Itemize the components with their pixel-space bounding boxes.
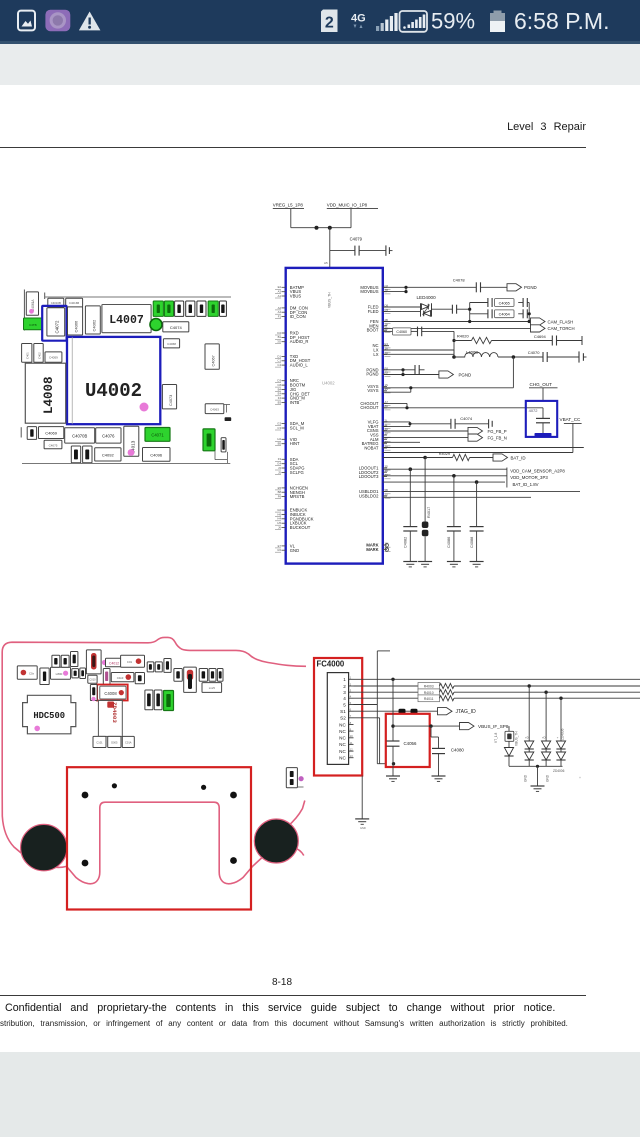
svg-text:VT_1.8: VT_1.8 [494,732,498,743]
svg-text:4A: 4A [385,427,389,431]
svg-text:CHG_OUT: CHG_OUT [530,382,553,387]
capacitor C4016B second (small box) [66,298,83,307]
svg-text:NC: NC [339,736,346,741]
capacitor row right of L4007 [153,301,226,316]
IC U4002 left pin labels [275,285,314,553]
svg-text:S2: S2 [340,716,346,721]
wire long vertical bus at FC4000 [377,651,395,766]
svg-text:F3: F3 [278,457,282,461]
wire MOVBUS net with capacitor C4078 and PGND arrow [383,278,507,294]
svg-text:INTB: INTB [290,400,300,405]
svg-text:H2: H2 [277,437,281,441]
svg-text:NC: NC [339,749,346,754]
highlighted green component left of C4072 [24,318,43,330]
bottom component row of U4002 PCB area [21,427,121,463]
power symbol PGND (second) [439,371,471,378]
capacitor C4074 (PCB) [163,322,189,332]
svg-text:SCLFG: SCLFG [290,470,304,475]
capacitor C4086 with ground [447,476,461,562]
PCB layout board edge line (top-left) [24,290,231,331]
transient diode column VBUS with box [494,726,519,766]
net arrow VBUS_IF_SP8 [460,723,509,730]
svg-text:J3: J3 [278,466,281,470]
capacitor C4008 highlighted red box [97,685,128,701]
test point green circle (PCB) [150,319,162,331]
IC U4002 (PCB footprint) [67,337,160,424]
IC U4002 right pin labels [359,284,391,552]
svg-text:C101: C101 [96,741,103,745]
gallery notification icon [18,11,35,31]
diode ZD4003 (PCB) [98,701,122,737]
svg-text:BAT_ID: BAT_ID [511,455,526,460]
component cluster bottom PCB [17,650,223,711]
svg-text:AUDIO_R: AUDIO_R [290,339,309,344]
svg-text:LED4000: LED4000 [417,295,437,300]
PCB board outline (pink) right circle arcs [253,853,268,866]
inductor L4008 (PCB) [25,363,65,423]
svg-text:L4008: L4008 [42,376,56,414]
svg-text:C0x: C0x [29,672,35,676]
connector shield inner outline (pink staple) [67,802,253,884]
net arrow JTAG_ID [438,708,477,716]
capacitor C4082 with ground (under IC) [403,469,417,561]
ground (ESD bus) [531,766,545,791]
svg-text:13: 13 [350,754,354,758]
svg-text:F4: F4 [278,396,282,400]
svg-text:U4002: U4002 [85,380,142,402]
svg-text:+: + [557,736,559,740]
svg-text:5: 5 [343,702,346,707]
svg-text:B4: B4 [278,387,282,391]
wire LDOOUT2 VDD_MOTOR_3P3 [383,474,549,480]
notification shade strip [0,44,640,85]
svg-text:3D: 3D [385,464,389,468]
confidential notice line 2 [0,1019,580,1028]
footer rule [0,995,586,996]
svg-text:L4007: L4007 [109,314,144,327]
svg-text:C4062: C4062 [91,319,96,332]
svg-text:CAM_FLASH: CAM_FLASH [548,319,574,324]
svg-text:LX: LX [373,352,378,357]
svg-text:C4060: C4060 [396,330,407,334]
purple app notification icon [45,10,70,32]
svg-text:GND: GND [524,774,528,782]
status bar background [0,0,640,41]
status bar [0,0,640,44]
ground (C4086) [447,562,461,567]
svg-text:MOVBUS: MOVBUS [360,289,378,294]
svg-text:C1: C1 [277,359,281,363]
net label VBAT_CC [383,417,582,452]
svg-text:ZD4003: ZD4003 [111,702,118,723]
svg-text:C4096: C4096 [150,453,163,458]
svg-text:C4063: C4063 [210,408,219,412]
wire LDOOUT1 VDD_CAM_SENSOR_A2P8 [383,467,566,473]
svg-text:GND: GND [546,774,550,782]
svg-text:U4002: U4002 [322,381,335,386]
svg-text:CHGOUT: CHGOUT [360,405,379,410]
svg-text:C4079: C4079 [350,237,363,242]
net label VREG_L5_1P8 [273,203,304,209]
svg-text:C3: C3 [277,426,281,430]
header Level 3 Repair [0,121,586,133]
svg-text:C4066: C4066 [74,320,79,333]
svg-text:C4092: C4092 [102,453,115,458]
resistor R4029 and BAT_ID arrow [383,452,526,461]
svg-text:ZD4006: ZD4006 [553,769,565,773]
net label CHG_OUT [529,382,558,401]
capacitor C4088 with ground [470,482,484,561]
svg-text:C4065: C4065 [499,301,510,305]
svg-text:PGND: PGND [366,372,378,377]
svg-text:CAM_TORCH: CAM_TORCH [548,326,575,331]
bottom gray bar [0,1052,640,1137]
svg-text:A4: A4 [278,310,282,314]
svg-text:NC: NC [339,742,346,747]
capacitor C4079 [330,228,393,256]
svg-text:C4068: C4068 [167,342,176,346]
svg-text:R4020: R4020 [457,334,470,339]
wire S1 to JTAG_ID with pads [354,709,438,714]
IC U4002 MARK pins [366,543,388,552]
PCB board outline (pink) bottom-left curve [2,793,66,867]
wire FEN to CAM_FLASH arrow [383,318,573,325]
svg-text:12: 12 [350,748,354,752]
svg-text:C4008: C4008 [104,691,117,696]
svg-text:BAT_ID_1.8V: BAT_ID_1.8V [513,482,539,487]
svg-text:G3: G3 [277,422,281,426]
svg-text:B1: B1 [278,335,282,339]
svg-text:J6: J6 [278,525,281,529]
svg-text:NC: NC [339,722,346,727]
resistor R4020 and capacitor C4694 [452,334,582,346]
capacitor C4016B (small box) [48,298,64,307]
wire PGND pins with capacitor and PGND arrow [383,365,439,376]
capacitor C4074 (schematic) [383,416,492,429]
svg-text:C4088: C4088 [470,537,474,548]
wire S2 down along box [354,718,380,764]
capacitor C4067 (PCB) [205,344,219,369]
wire ALM stub [383,441,420,443]
power symbol PGND (MOVBUS) [507,284,537,291]
blue highlight box capacitor C4072 (schematic) [526,401,557,437]
svg-text:C4071: C4071 [151,433,164,438]
blue highlight box around C4072 [42,306,66,341]
svg-text:4: 4 [343,696,346,701]
boxed signal icon [400,11,428,32]
svg-text:NOBAT: NOBAT [364,446,379,451]
wire BATREG long [383,447,584,449]
svg-text:E2: E2 [278,285,282,289]
svg-text:C4080: C4080 [451,748,464,753]
svg-text:C8: C8 [277,383,281,387]
LED LED4000 (dual diode) [383,295,470,317]
capacitor C4065 [470,298,530,307]
svg-text:R4017: R4017 [427,507,431,518]
svg-text:C402: C402 [38,352,42,359]
svg-text:A1: A1 [278,294,282,298]
capacitor C4071 highlighted green (PCB) [145,428,170,442]
svg-text:F1: F1 [278,315,282,319]
IC HDC500 (PCB octagon) [23,695,76,734]
svg-text:G6: G6 [277,508,281,512]
wire VSYS to inductor output node [383,357,514,392]
inductor L4013 (PCB) [124,426,139,456]
svg-text:NC: NC [339,729,346,734]
svg-text:VDD_MUIC_IO_1P8: VDD_MUIC_IO_1P8 [327,203,368,208]
component left of C4008 [90,685,97,702]
ground (C4082) [403,562,417,567]
svg-text:PGND: PGND [524,285,537,290]
wire vertical joining FLED and flash caps [468,303,531,322]
svg-text:VDD_CAM_SENSOR_A2P8: VDD_CAM_SENSOR_A2P8 [510,469,565,474]
capacitor C4072 (PCB) [47,308,65,336]
svg-text:C4082: C4082 [404,537,408,548]
svg-text:8D: 8D [385,473,389,477]
connector pads under ZD4003 [93,736,134,747]
svg-text:FG_FB_N: FG_FB_N [488,436,507,441]
svg-text:MRSTB: MRSTB [290,494,305,499]
svg-text:C4016B: C4016B [69,301,79,305]
wire FC4000 pin1 row [354,678,640,681]
svg-text:BUCKOUT: BUCKOUT [290,525,311,530]
4G indicator [351,13,366,29]
svg-text:C4073: C4073 [169,395,173,406]
svg-text:A5: A5 [324,261,328,265]
svg-text:xxx5: xxx5 [209,686,216,690]
resistor R4003 on pin2 row [354,683,640,690]
svg-text:C4086: C4086 [447,537,451,548]
svg-text:C4069: C4069 [45,431,58,436]
resistor R4017 with ground [422,458,431,562]
svg-text:C4075: C4075 [49,444,58,448]
svg-text:3: 3 [343,690,346,695]
page number 8-18 [0,977,564,988]
svg-text:R4003: R4003 [424,685,434,689]
capacitor C4056 symbol [387,679,400,776]
board outline bottom line [22,463,230,465]
connector pad dots [82,783,237,866]
mounting hole left (black circle) [21,824,67,870]
svg-text:C01: C01 [127,660,133,664]
svg-text:AUDIO_L: AUDIO_L [290,363,309,368]
capacitor C4070 and output cap [528,350,587,363]
svg-text:S1: S1 [340,709,346,714]
svg-text:11: 11 [350,741,353,745]
svg-text:C4078: C4078 [453,278,466,283]
svg-text:FG_FB_P: FG_FB_P [488,429,507,434]
svg-text:VSYS: VSYS [367,388,378,393]
capacitor C4062 (PCB) [85,306,100,334]
svg-text:G5: G5 [277,548,281,552]
wire LDOOUT3 BAT_ID_1.8V [383,468,539,488]
wire USBLDO2 [383,496,531,498]
svg-text:R4029: R4029 [439,452,450,456]
PCB board outline (pink) top [2,637,306,793]
svg-text:C4TB: C4TB [29,323,37,327]
USB connector red outline box [67,767,251,909]
svg-text:L800: L800 [56,672,63,676]
resistor R4011 on pin4 row [354,695,640,702]
net label VDD_MUIC_IO_1P8 [327,203,378,209]
svg-text:GND: GND [290,548,299,553]
svg-text:C0x0: C0x0 [117,676,124,680]
green component right of U4002 area [203,429,215,451]
svg-text:C4016B: C4016B [51,301,61,305]
svg-text:C4070B: C4070B [72,434,87,439]
connector FC4000 symbol body [327,673,348,765]
wire to IC pin A5 [324,251,330,268]
capacitor C4056 red highlight box [386,714,430,767]
ground (R4017) [418,562,432,567]
svg-text:LDOOUT3: LDOOUT3 [359,474,379,479]
capacitor C4073 (PCB) [162,385,176,409]
svg-text:C4: C4 [277,363,281,367]
op-amp IC U4002 main symbol box [286,268,383,564]
svg-text:+: + [579,776,581,780]
capacitor C4066 (PCB) [68,307,83,335]
ground (C4088) [470,562,484,567]
svg-text:C401: C401 [26,352,30,359]
svg-text:1: 1 [343,677,346,682]
svg-text:+D: +D [525,736,529,740]
warning triangle icon [79,12,101,31]
connector FC4000 red highlight box [314,658,362,776]
svg-text:B8: B8 [278,490,282,494]
wire VBUS_IF_SP8 [393,724,460,727]
wire CHGOUT to C4072 [383,403,543,409]
resistor R4010 on pin3 row [354,689,640,696]
capacitor C4080 with ground [431,726,464,776]
svg-text:HDC500: HDC500 [33,711,65,721]
diode pair column 1 (ESD) [525,686,534,766]
small components left of L4008 [22,344,62,363]
header rule [0,147,586,149]
svg-text:PGND: PGND [459,372,472,377]
diode pair column 3 ZD4006 [556,698,565,766]
svg-text:VBUS_IF_SP8: VBUS_IF_SP8 [478,724,509,729]
svg-text:R4010: R4010 [424,691,434,695]
svg-text:2: 2 [343,684,346,689]
svg-text:4072: 4072 [529,408,539,413]
capacitor C4068 (PCB) [163,339,179,348]
svg-text:ZD4006: ZD4006 [561,728,565,740]
svg-text:2S: 2S [385,493,389,497]
svg-text:C01A: C01A [125,741,132,745]
inductor L4007 (PCB) [102,305,151,333]
svg-text:10: 10 [350,734,354,738]
svg-text:C4056: C4056 [404,741,417,746]
svg-text:SCL_M: SCL_M [290,426,304,431]
svg-text:C4070: C4070 [528,350,541,355]
svg-text:C4012: C4012 [109,661,119,665]
wire CSNS to FG_FB_P arrow [383,427,507,434]
svg-text:C4072: C4072 [55,320,60,333]
svg-text:J5: J5 [278,470,281,474]
confidential notice line 1 [5,1002,565,1014]
ground under FC4000 [355,776,369,831]
wire LX pins to inductor L4008 [383,350,543,359]
svg-text:B3: B3 [278,400,282,404]
diode pair column 2 (ESD) [542,692,551,766]
SIM 2 icon [321,10,338,33]
svg-text:C4059: C4059 [49,356,58,360]
svg-text:ID_CON: ID_CON [290,314,306,319]
wire pin5 to bus vertical [354,704,378,706]
svg-text:GND: GND [360,826,366,830]
wire MEN to CAM_TORCH arrow [383,325,575,332]
wire VSS to FG_FB_N arrow [383,434,507,441]
svg-text:B5: B5 [278,442,282,446]
svg-text:R4011: R4011 [424,697,434,701]
svg-text:C4064: C4064 [499,313,510,317]
capacitor C4061A (vertical, top-left) [26,292,38,315]
svg-text:VBUS_TH: VBUS_TH [515,731,519,746]
small component with wires near board edge [215,438,227,464]
ground (C4056) [386,776,400,781]
capacitor C4060 on BOOT wire [383,327,454,357]
connector FC4000 pins [339,676,353,761]
svg-text:C4076: C4076 [102,434,115,439]
wire NC stub [383,345,389,347]
wire ESD ground bus [509,765,565,782]
battery icon [490,11,505,33]
svg-text:FC4000: FC4000 [317,660,345,669]
svg-text:VDD_MOTOR_3P3: VDD_MOTOR_3P3 [510,475,548,480]
capacitor C4063 (PCB) with stub wires [205,404,231,421]
component near FC4000 bottom-left [286,768,303,788]
svg-text:C4694: C4694 [534,334,547,339]
mounting hole right (black circle) [254,819,298,863]
svg-text:USBLDO2: USBLDO2 [359,494,379,499]
signal bars [376,13,398,31]
svg-text:VBUS_TH: VBUS_TH [328,292,332,308]
svg-text:VREG_L5_1P8: VREG_L5_1P8 [273,203,304,208]
ground (C4080) [432,776,446,781]
svg-text:VBUS: VBUS [290,294,302,299]
wire VREG to junction [291,209,351,230]
svg-text:D005: D005 [111,741,118,745]
svg-text:3G: 3G [277,340,281,344]
wire USBLDO1 long [383,491,580,493]
svg-text:FLED: FLED [368,309,379,314]
svg-text:+D: +D [542,736,546,740]
svg-text:HINT: HINT [290,441,300,446]
svg-text:JTAG_ID: JTAG_ID [456,709,477,715]
capacitor C4064 [470,309,530,318]
svg-text:C4074: C4074 [460,416,473,421]
svg-text:C4067: C4067 [212,355,216,366]
svg-text:MARK: MARK [366,547,378,552]
svg-text:H4: H4 [277,517,281,521]
svg-text:C010: C010 [89,678,96,682]
svg-text:NC: NC [339,756,346,761]
svg-text:C4074: C4074 [170,325,183,330]
svg-text:VBAT_CC: VBAT_CC [560,417,582,422]
svg-text:BOOT: BOOT [367,328,379,333]
svg-text:F6: F6 [278,495,282,499]
capacitor C4096 (PCB) [143,448,171,462]
